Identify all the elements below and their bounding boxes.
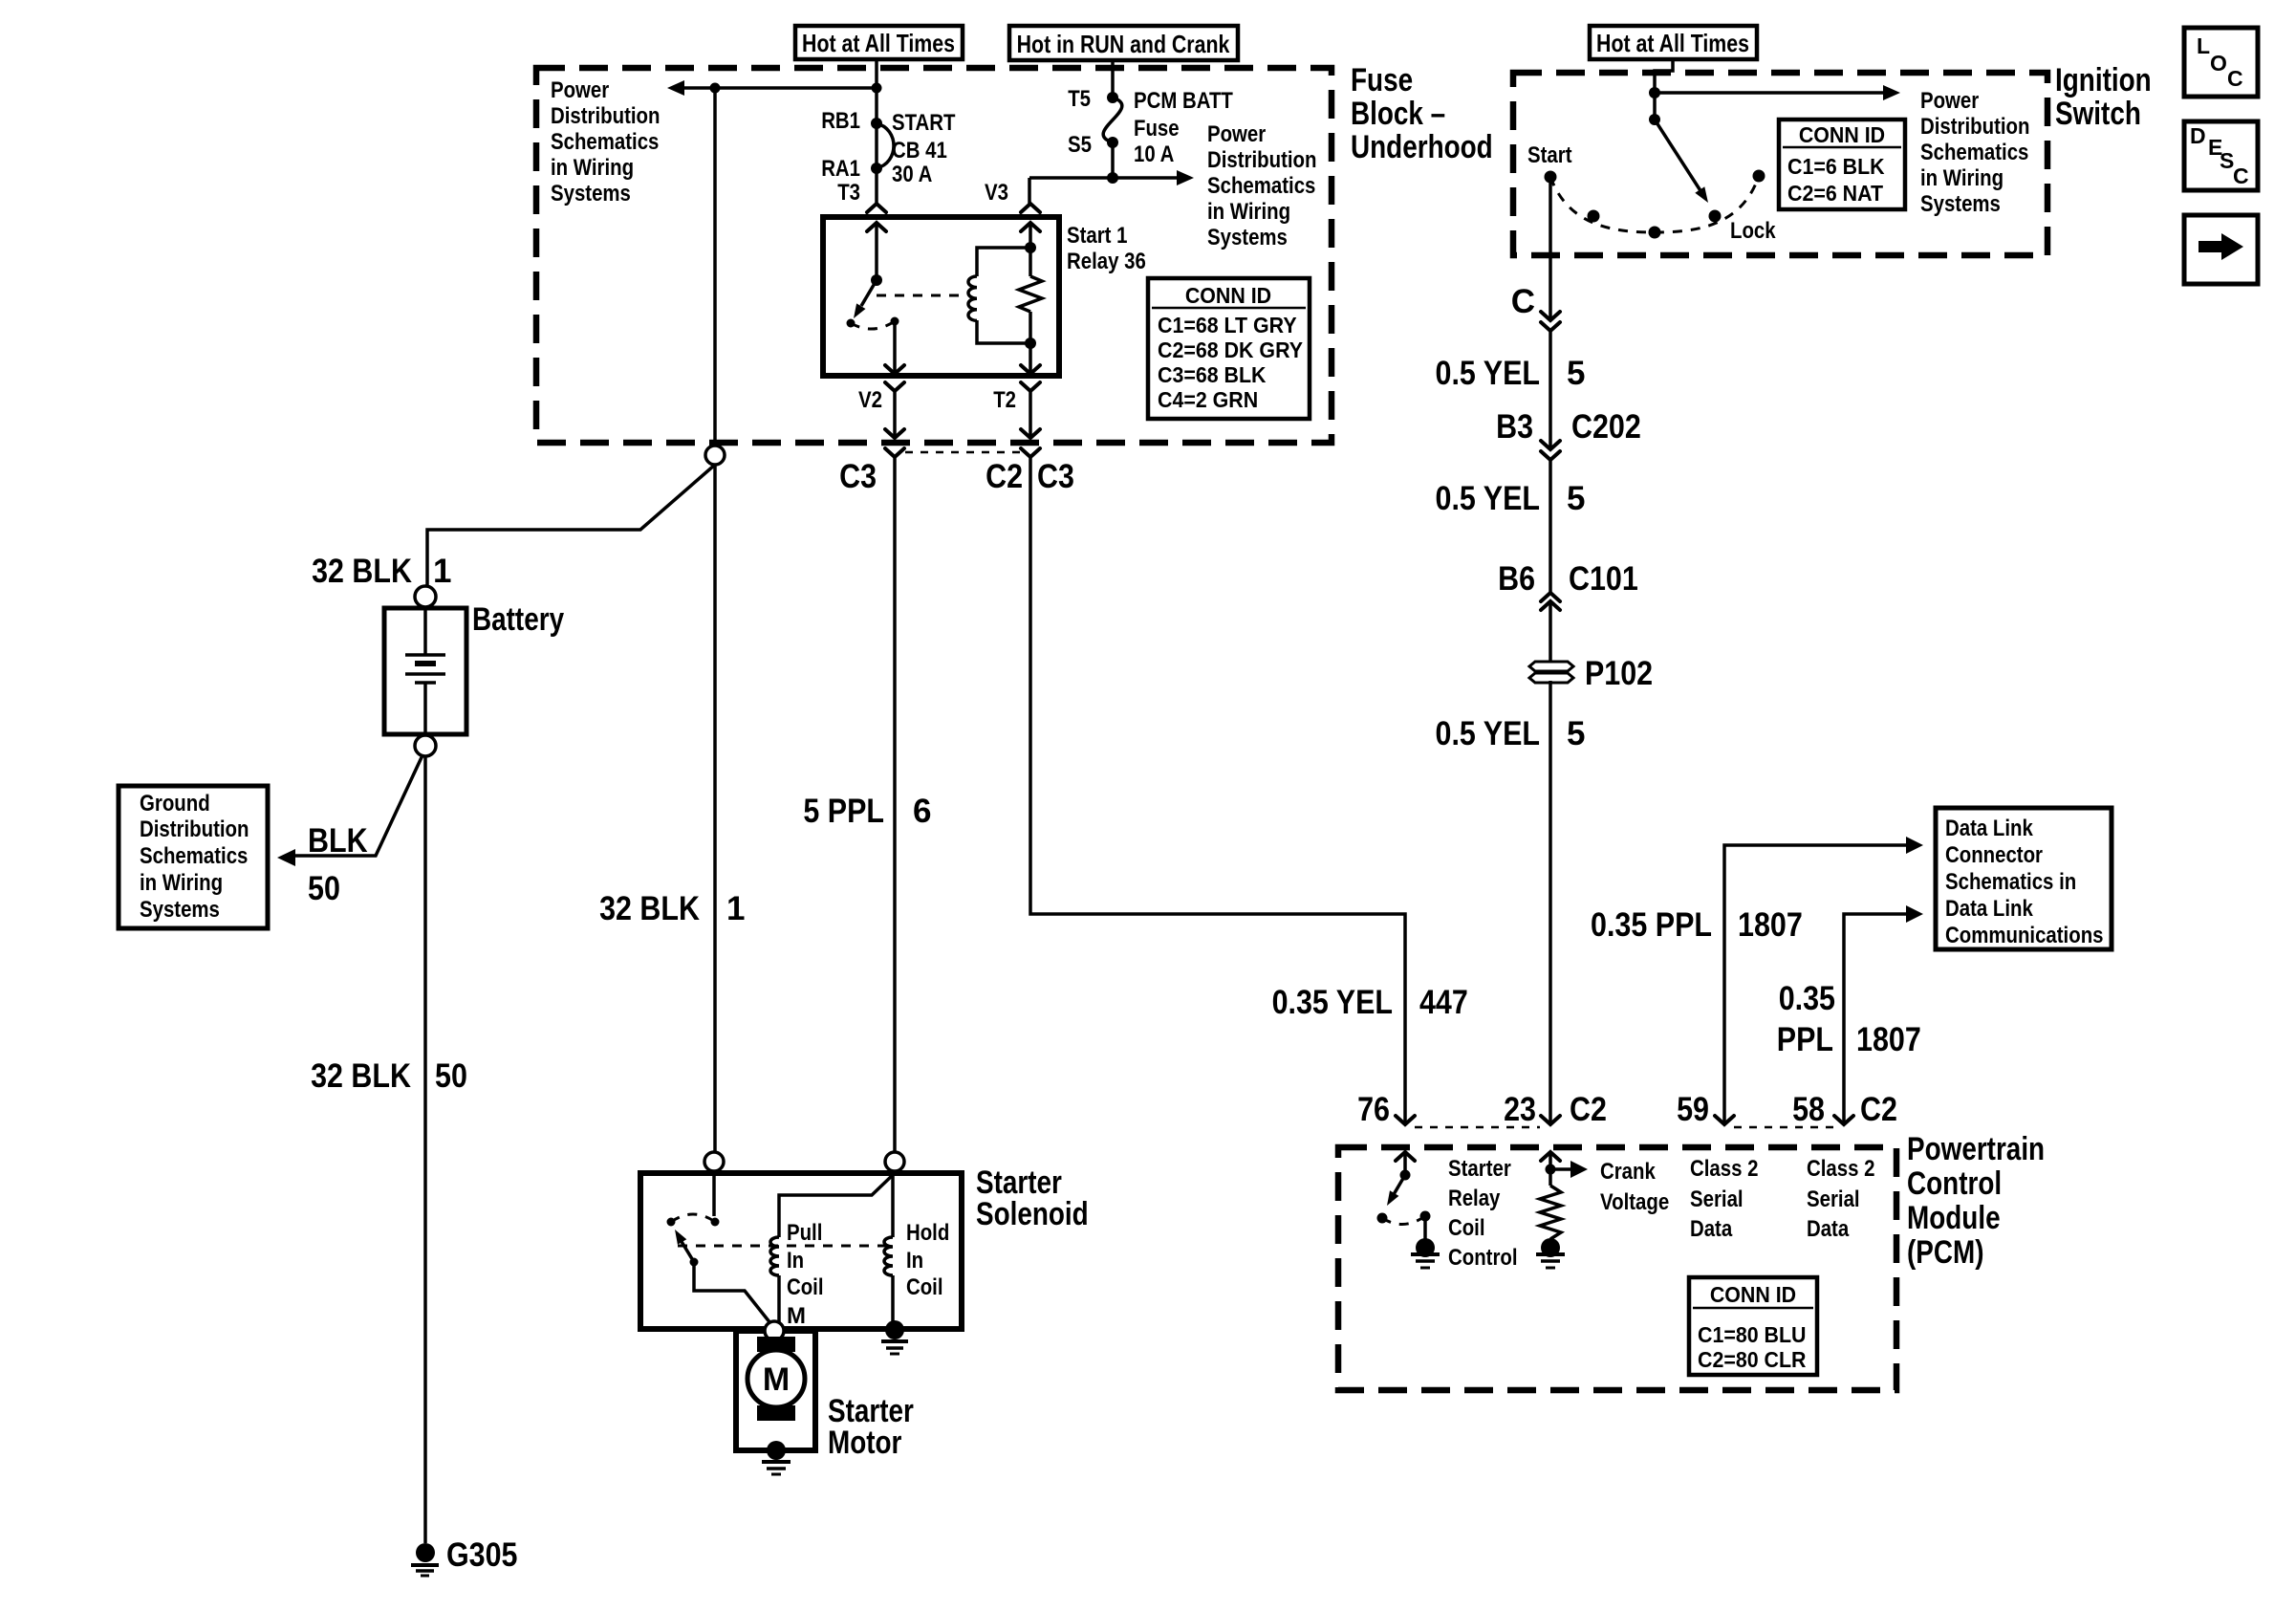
svg-text:59: 59 bbox=[1677, 1091, 1709, 1128]
svg-text:Hot at All Times: Hot at All Times bbox=[802, 29, 955, 57]
svg-text:C1=6 BLK: C1=6 BLK bbox=[1787, 154, 1885, 179]
svg-text:In: In bbox=[906, 1248, 923, 1274]
svg-text:Crank: Crank bbox=[1600, 1159, 1656, 1185]
svg-text:CONN ID: CONN ID bbox=[1185, 283, 1271, 308]
svg-text:58: 58 bbox=[1792, 1091, 1825, 1128]
svg-text:BLK: BLK bbox=[308, 822, 368, 860]
svg-text:Systems: Systems bbox=[140, 897, 220, 923]
svg-text:0.5 YEL: 0.5 YEL bbox=[1436, 480, 1541, 517]
svg-text:Schematics: Schematics bbox=[1207, 173, 1315, 199]
svg-text:0.5 YEL: 0.5 YEL bbox=[1436, 715, 1541, 752]
svg-text:1807: 1807 bbox=[1856, 1021, 1921, 1058]
svg-text:Systems: Systems bbox=[1920, 191, 2001, 217]
svg-text:Ground: Ground bbox=[140, 791, 210, 816]
svg-text:C: C bbox=[2233, 163, 2249, 188]
svg-text:0.35: 0.35 bbox=[1779, 980, 1835, 1017]
svg-text:C: C bbox=[1511, 283, 1535, 320]
svg-text:D: D bbox=[2190, 123, 2206, 148]
svg-text:C: C bbox=[2227, 66, 2243, 91]
svg-text:Fuse: Fuse bbox=[1351, 62, 1413, 98]
svg-text:Powertrain: Powertrain bbox=[1907, 1131, 2045, 1167]
svg-text:Relay: Relay bbox=[1448, 1186, 1501, 1211]
svg-text:C2=68 DK GRY: C2=68 DK GRY bbox=[1158, 337, 1303, 362]
svg-text:Solenoid: Solenoid bbox=[976, 1196, 1089, 1232]
svg-text:Block –: Block – bbox=[1351, 96, 1445, 132]
svg-text:C2=6 NAT: C2=6 NAT bbox=[1787, 181, 1883, 206]
svg-text:30 A: 30 A bbox=[892, 162, 932, 187]
svg-text:Class 2: Class 2 bbox=[1807, 1156, 1875, 1182]
svg-text:M: M bbox=[787, 1303, 806, 1329]
svg-text:0.35 PPL: 0.35 PPL bbox=[1591, 906, 1712, 944]
svg-text:0.35 YEL: 0.35 YEL bbox=[1272, 984, 1393, 1021]
svg-text:6: 6 bbox=[913, 793, 931, 830]
svg-text:START: START bbox=[892, 110, 956, 136]
svg-text:0.5 YEL: 0.5 YEL bbox=[1436, 355, 1541, 392]
svg-text:in Wiring: in Wiring bbox=[1920, 165, 2004, 191]
svg-text:Data Link: Data Link bbox=[1945, 816, 2033, 841]
svg-text:S5: S5 bbox=[1068, 132, 1092, 158]
svg-text:C3=68 BLK: C3=68 BLK bbox=[1158, 362, 1267, 387]
svg-text:CONN ID: CONN ID bbox=[1799, 122, 1885, 147]
svg-text:Hot at All Times: Hot at All Times bbox=[1596, 29, 1749, 57]
svg-text:1807: 1807 bbox=[1738, 906, 1803, 944]
svg-text:CB 41: CB 41 bbox=[892, 138, 947, 163]
svg-text:Hot in RUN and Crank: Hot in RUN and Crank bbox=[1017, 30, 1230, 58]
svg-text:RA1: RA1 bbox=[821, 156, 860, 182]
svg-text:Starter: Starter bbox=[1448, 1156, 1511, 1182]
svg-text:C1=68 LT GRY: C1=68 LT GRY bbox=[1158, 313, 1297, 337]
svg-text:C3: C3 bbox=[839, 458, 877, 495]
svg-text:1: 1 bbox=[433, 553, 451, 590]
svg-text:32 BLK: 32 BLK bbox=[599, 890, 700, 927]
svg-text:Module: Module bbox=[1907, 1200, 2001, 1236]
svg-text:RB1: RB1 bbox=[821, 108, 860, 134]
svg-text:Schematics: Schematics bbox=[551, 129, 659, 155]
svg-text:C2: C2 bbox=[1860, 1091, 1897, 1128]
svg-text:C1=80 BLU: C1=80 BLU bbox=[1698, 1322, 1807, 1347]
svg-text:M: M bbox=[763, 1361, 790, 1398]
svg-text:C202: C202 bbox=[1571, 408, 1641, 446]
svg-text:CONN ID: CONN ID bbox=[1710, 1282, 1796, 1307]
svg-text:Coil: Coil bbox=[1448, 1215, 1485, 1241]
svg-text:Lock: Lock bbox=[1730, 218, 1776, 244]
svg-text:C2: C2 bbox=[1570, 1091, 1607, 1128]
svg-text:C2=80 CLR: C2=80 CLR bbox=[1698, 1347, 1807, 1372]
svg-text:T2: T2 bbox=[993, 387, 1016, 413]
svg-text:Coil: Coil bbox=[906, 1274, 943, 1300]
svg-text:5: 5 bbox=[1567, 355, 1585, 392]
svg-text:C101: C101 bbox=[1569, 560, 1638, 598]
svg-text:447: 447 bbox=[1419, 984, 1468, 1021]
svg-text:32 BLK: 32 BLK bbox=[311, 1057, 411, 1095]
svg-text:Underhood: Underhood bbox=[1351, 129, 1493, 165]
svg-text:Communications: Communications bbox=[1945, 923, 2104, 948]
svg-text:Serial: Serial bbox=[1807, 1186, 1860, 1212]
svg-text:Distribution: Distribution bbox=[1920, 114, 2030, 140]
svg-text:5 PPL: 5 PPL bbox=[803, 793, 884, 830]
svg-text:Class 2: Class 2 bbox=[1690, 1156, 1759, 1182]
svg-text:10 A: 10 A bbox=[1134, 142, 1174, 167]
svg-text:Fuse: Fuse bbox=[1134, 116, 1180, 142]
svg-text:Connector: Connector bbox=[1945, 842, 2043, 868]
svg-text:Motor: Motor bbox=[828, 1425, 901, 1461]
svg-text:Switch: Switch bbox=[2055, 96, 2141, 132]
svg-text:O: O bbox=[2210, 51, 2227, 76]
svg-text:in Wiring: in Wiring bbox=[551, 155, 634, 181]
svg-text:Ignition: Ignition bbox=[2055, 62, 2152, 98]
svg-text:32 BLK: 32 BLK bbox=[312, 553, 412, 590]
svg-text:L: L bbox=[2197, 33, 2210, 58]
svg-text:Start 1: Start 1 bbox=[1067, 223, 1128, 249]
svg-text:in Wiring: in Wiring bbox=[140, 870, 223, 896]
svg-text:1: 1 bbox=[726, 890, 745, 927]
svg-text:V2: V2 bbox=[858, 387, 882, 413]
svg-text:Relay 36: Relay 36 bbox=[1067, 249, 1146, 274]
svg-text:C3: C3 bbox=[1037, 458, 1074, 495]
svg-text:PPL: PPL bbox=[1777, 1021, 1833, 1058]
svg-text:P102: P102 bbox=[1585, 655, 1653, 692]
svg-text:5: 5 bbox=[1567, 715, 1585, 752]
svg-text:Serial: Serial bbox=[1690, 1186, 1744, 1212]
svg-text:Pull: Pull bbox=[787, 1220, 822, 1246]
svg-text:B3: B3 bbox=[1496, 408, 1533, 446]
svg-text:Distribution: Distribution bbox=[551, 103, 661, 129]
svg-text:Control: Control bbox=[1448, 1245, 1518, 1271]
svg-text:Schematics: Schematics bbox=[140, 843, 248, 869]
svg-text:5: 5 bbox=[1567, 480, 1585, 517]
svg-text:Schematics: Schematics bbox=[1920, 140, 2028, 165]
svg-text:PCM BATT: PCM BATT bbox=[1134, 88, 1233, 114]
svg-text:Power: Power bbox=[1920, 88, 1979, 114]
svg-text:Battery: Battery bbox=[472, 601, 564, 638]
svg-text:In: In bbox=[787, 1248, 804, 1274]
svg-text:Distribution: Distribution bbox=[1207, 147, 1317, 173]
svg-text:Systems: Systems bbox=[1207, 225, 1288, 250]
svg-text:B6: B6 bbox=[1498, 560, 1535, 598]
svg-text:G305: G305 bbox=[446, 1536, 518, 1574]
svg-text:Hold: Hold bbox=[906, 1220, 949, 1246]
svg-text:Control: Control bbox=[1907, 1165, 2002, 1202]
svg-text:(PCM): (PCM) bbox=[1907, 1234, 1984, 1271]
svg-text:Power: Power bbox=[551, 77, 609, 103]
svg-text:Distribution: Distribution bbox=[140, 816, 249, 842]
svg-text:Start: Start bbox=[1527, 142, 1572, 168]
svg-text:Coil: Coil bbox=[787, 1274, 824, 1300]
svg-text:T3: T3 bbox=[837, 180, 860, 206]
svg-text:V3: V3 bbox=[985, 180, 1008, 206]
svg-text:Voltage: Voltage bbox=[1600, 1189, 1669, 1215]
svg-text:Data: Data bbox=[1807, 1216, 1850, 1242]
svg-text:50: 50 bbox=[435, 1057, 467, 1095]
svg-text:C4=2 GRN: C4=2 GRN bbox=[1158, 387, 1258, 412]
svg-text:Power: Power bbox=[1207, 121, 1266, 147]
svg-text:T5: T5 bbox=[1068, 86, 1091, 112]
svg-text:Systems: Systems bbox=[551, 181, 631, 207]
svg-text:23: 23 bbox=[1504, 1091, 1536, 1128]
svg-text:C2: C2 bbox=[986, 458, 1023, 495]
svg-text:in Wiring: in Wiring bbox=[1207, 199, 1290, 225]
svg-text:Data Link: Data Link bbox=[1945, 896, 2033, 922]
svg-text:Schematics in: Schematics in bbox=[1945, 869, 2076, 895]
svg-text:Data: Data bbox=[1690, 1216, 1733, 1242]
svg-text:50: 50 bbox=[308, 870, 340, 907]
svg-text:76: 76 bbox=[1357, 1091, 1390, 1128]
